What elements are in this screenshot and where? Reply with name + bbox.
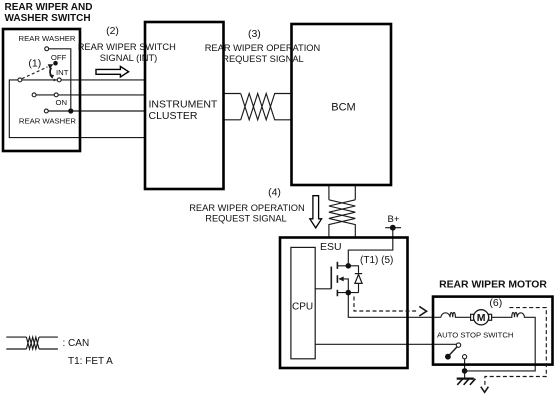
svg-text:REAR WIPER OPERATION: REAR WIPER OPERATION	[205, 43, 321, 53]
svg-text:REQUEST SIGNAL: REQUEST SIGNAL	[222, 54, 303, 64]
svg-text:BCM: BCM	[331, 101, 355, 113]
svg-text:CLUSTER: CLUSTER	[149, 110, 198, 122]
svg-text:REAR WIPER AND: REAR WIPER AND	[5, 2, 93, 13]
svg-text:(1): (1)	[28, 57, 41, 69]
svg-text:WASHER SWITCH: WASHER SWITCH	[5, 13, 91, 24]
svg-text:ESU: ESU	[320, 241, 342, 253]
svg-text:REAR WASHER: REAR WASHER	[19, 116, 76, 125]
svg-text:INT: INT	[56, 68, 69, 77]
svg-text:(2): (2)	[106, 25, 119, 37]
svg-text:: CAN: : CAN	[63, 338, 90, 349]
svg-text:(4): (4)	[268, 187, 281, 199]
svg-text:M: M	[477, 312, 486, 324]
svg-text:CPU: CPU	[292, 302, 313, 313]
svg-text:T1: FET A: T1: FET A	[68, 356, 113, 367]
svg-text:SIGNAL (INT): SIGNAL (INT)	[100, 53, 158, 63]
svg-text:REAR WIPER MOTOR: REAR WIPER MOTOR	[439, 280, 547, 291]
svg-text:REQUEST SIGNAL: REQUEST SIGNAL	[205, 213, 286, 223]
svg-text:(6): (6)	[489, 297, 502, 309]
svg-text:AUTO STOP SWITCH: AUTO STOP SWITCH	[437, 330, 513, 339]
svg-text:REAR WIPER SWITCH: REAR WIPER SWITCH	[78, 42, 176, 52]
svg-text:B+: B+	[388, 214, 400, 225]
svg-text:INSTRUMENT: INSTRUMENT	[149, 99, 218, 111]
svg-text:(T1) (5): (T1) (5)	[360, 255, 393, 266]
svg-text:ON: ON	[56, 98, 68, 107]
svg-text:REAR WASHER: REAR WASHER	[19, 34, 76, 43]
svg-text:OFF: OFF	[51, 53, 67, 62]
svg-text:(3): (3)	[248, 28, 261, 40]
svg-text:REAR WIPER OPERATION: REAR WIPER OPERATION	[189, 203, 305, 213]
